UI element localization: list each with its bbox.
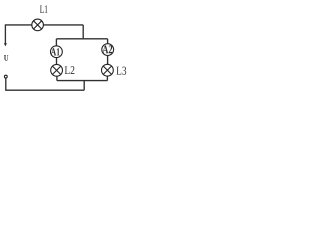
wire: stub top rail to ammeter A1 [55,39,57,46]
wire: vertical riser bottom wire to bottom rail [83,81,85,91]
label U (voltage source) [4,55,8,61]
wire: top rail of parallel section [56,38,107,40]
lamp L2 [51,64,63,76]
label L3 [116,67,126,75]
terminal dot lower source [4,75,7,78]
wire: bottom horizontal [5,89,84,91]
wire: stub A2 to lamp L3 [107,56,109,65]
wire: left vertical lower [5,78,7,90]
wire: stub lamp L2 to bottom rail [56,76,58,81]
ammeter A2 [102,44,114,56]
wire: top-left horizontal from source corner to lamp L1 [5,24,31,26]
arrowhead on source upper terminal [4,43,7,46]
lamp L3 [102,64,114,76]
wire: bottom rail of parallel section [57,80,108,82]
wire: stub A1 to lamp L2 [56,58,58,65]
background [0,0,130,97]
wire: feed vertical from top wire to top rail [82,25,84,39]
ammeter A1 [51,46,63,58]
wire: stub top rail to ammeter A2 [107,39,109,44]
wire: stub lamp L3 to bottom rail [106,76,108,81]
label L2 [65,66,75,74]
label L1 [40,5,48,12]
lamp L1 [32,19,44,31]
wire: top horizontal from L1 to feed corner [43,24,83,26]
wire: left vertical upper (source + terminal lead) [4,24,6,44]
